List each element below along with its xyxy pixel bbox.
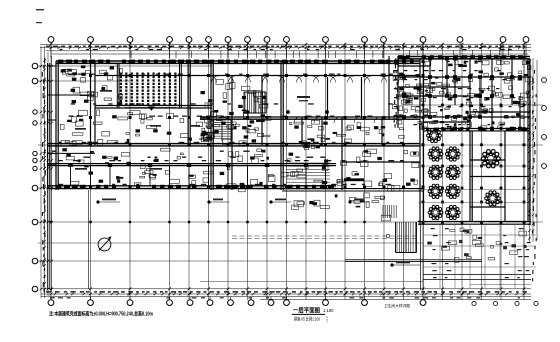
- right dimension lines: [524, 58, 537, 290]
- left grid bubbles: [32, 63, 38, 69]
- round table T8: [428, 205, 443, 219]
- round table T11: [485, 191, 501, 206]
- round table T6: [428, 184, 443, 198]
- round table T9: [445, 205, 460, 219]
- hall fixtures: [289, 120, 404, 143]
- round table T1: [427, 128, 442, 142]
- colonnade wall: [95, 75, 420, 77]
- hall door arcs bottom: [294, 117, 400, 123]
- mid lower rooms: [292, 193, 391, 221]
- bottom grid bubbles: [48, 300, 54, 306]
- top bubble stems: [51, 42, 526, 58]
- round table T5: [445, 165, 460, 179]
- bottom small bubbles right: [472, 301, 476, 305]
- auditorium podium: [148, 107, 155, 111]
- exterior top wall: [56, 61, 420, 63]
- courtyard downspout leaders: [98, 202, 420, 265]
- kitchen walls: [398, 59, 530, 131]
- courtyard partial line y281.5: [200, 281, 423, 283]
- structural column dots right wing: [422, 57, 526, 224]
- top band hanging extension lines: [131, 50, 525, 58]
- annex walls: [345, 224, 531, 290]
- left wing room fixtures lower: [62, 148, 213, 186]
- dining interior grid lines: [418, 166, 530, 203]
- center stair treads: [245, 92, 265, 113]
- courtyard west fence: [48, 189, 50, 289]
- top-right block top wall: [398, 57, 530, 59]
- hall south stair dark block: [299, 138, 325, 149]
- left wing room fixtures upper: [61, 65, 123, 105]
- right band text marks: [532, 70, 537, 281]
- hall label: [297, 96, 310, 98]
- courtyard fence x88: [88, 190, 90, 289]
- auditorium front lines: [118, 105, 182, 108]
- secondary stair rail: [214, 119, 232, 141]
- top-left tiny marks: [36, 9, 44, 10]
- top dimension lines: [40, 44, 531, 54]
- top wall window marks: [58, 60, 414, 64]
- wall dimension text marks: [58, 74, 419, 186]
- svg-text:注:本层建筑完成面标高为±0.000,H=900,750,2: 注:本层建筑完成面标高为±0.000,H=900,750,240,总高8.10m: [49, 310, 153, 318]
- top dimension figures row sparse: [60, 49, 512, 50]
- colonnade door arcs: [210, 76, 405, 83]
- entrance steps center-south: [286, 163, 330, 185]
- kitchen wall junction blobs: [402, 57, 522, 130]
- small mid stair: [383, 205, 396, 218]
- canopy dashed lines: [232, 236, 420, 239]
- structural column dots main: [89, 60, 425, 189]
- corridor label dashes: [52, 151, 326, 158]
- south rooms door marks: [68, 164, 72, 167]
- secondary stair: [214, 120, 232, 138]
- annex terrace verticals: [440, 225, 515, 288]
- solid wall bar mid: [344, 178, 364, 181]
- bottom dimension figures row2 sparse: [50, 297, 520, 298]
- north arrow: [98, 238, 111, 251]
- svg-text:1:100: 1:100: [323, 308, 334, 313]
- center stair walls: [244, 92, 266, 113]
- toilet block fixtures: [200, 80, 271, 146]
- auditorium seat rows: [120, 73, 177, 106]
- round table T3: [445, 147, 460, 161]
- round table T2: [428, 147, 443, 161]
- svg-text:一层平面图: 一层平面图: [293, 307, 320, 315]
- annex terrace horizontals: [423, 235, 536, 285]
- hall column dots: [286, 110, 290, 114]
- dining top wall marks: [426, 128, 527, 131]
- round table T10: [481, 150, 500, 168]
- left band dimension text marks: [42, 58, 46, 293]
- corridor wall right of auditorium: [188, 63, 190, 146]
- top dimension figures row main: [46, 46, 525, 47]
- annex fixtures: [427, 228, 526, 262]
- left band ticks: [40, 59, 53, 290]
- leader label marks: [102, 199, 410, 264]
- south rooms partitions: [71, 166, 326, 186]
- interior horizontal walls: [48, 106, 421, 189]
- svg-text:建施-05 比例1:100: 建施-05 比例1:100: [294, 316, 320, 323]
- left porch walls: [48, 63, 96, 189]
- rooms below corridor mid: [288, 149, 419, 191]
- auditorium side walls: [117, 63, 181, 108]
- title underline: [292, 313, 325, 315]
- bottom dimension lines: [41, 289, 531, 300]
- column dots courtyard line: [50, 221, 366, 223]
- svg-text:卫生间大样详图: 卫生间大样详图: [384, 303, 410, 308]
- bottom wall window marks: [56, 185, 334, 189]
- exterior left wall: [56, 61, 58, 190]
- right grid bubbles: [542, 78, 547, 83]
- top band ticks: [50, 43, 526, 49]
- room labels left: [75, 90, 200, 170]
- round table T7: [445, 184, 460, 198]
- right band ticks: [528, 60, 534, 240]
- left wing room fixtures mid: [60, 110, 212, 146]
- round table T4: [428, 165, 443, 179]
- kitchen text marks: [394, 61, 523, 125]
- mid-extension bottom wall: [282, 189, 423, 191]
- courtyard line y243: [38, 242, 423, 244]
- bottom band ticks: [50, 287, 526, 295]
- bottom dimension figures row: [46, 291, 527, 292]
- center corridor fixtures: [220, 149, 288, 192]
- structural grid horizontals: [38, 66, 543, 261]
- kitchen internal dim column: [393, 58, 398, 128]
- left dimension lines: [41, 46, 52, 298]
- annex stair: [397, 222, 415, 252]
- bottom bubble stems: [51, 297, 423, 300]
- top grid bubbles: [48, 37, 54, 43]
- dining walls: [418, 59, 531, 225]
- kitchen fixtures: [392, 60, 532, 130]
- annex dim text columns: [431, 228, 531, 278]
- annex stair dot: [386, 234, 390, 238]
- interior vertical walls: [91, 56, 424, 225]
- structural grid verticals: [51, 43, 524, 300]
